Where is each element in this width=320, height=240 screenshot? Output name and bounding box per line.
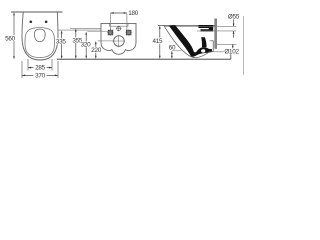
page rule at far right [243, 16, 245, 75]
dim 415 [159, 27, 161, 57]
dim 320 [85, 34, 87, 57]
dim 370 extension lines [21, 61, 23, 78]
dim 180 [110, 12, 127, 14]
ext line for 355 [70, 27, 101, 29]
arm from flush bar to wave (black) [201, 37, 206, 47]
fixing hole left [108, 30, 113, 35]
bolt hole right [45, 20, 48, 23]
floor line [57, 58, 231, 60]
dim 370 [22, 74, 34, 76]
svg-text:335: 335 [56, 38, 67, 45]
svg-text:60: 60 [169, 45, 176, 52]
dim 285 [28, 67, 34, 69]
dim 60 ext line [172, 50, 182, 52]
wall stub lower right [230, 54, 232, 59]
outlet bore (white) [201, 49, 205, 52]
svg-text:180: 180 [128, 10, 139, 17]
dim 560 line [13, 14, 15, 58]
wall double line [214, 19, 216, 49]
inner bowl rim [25, 28, 55, 58]
svg-text:220: 220 [91, 47, 102, 54]
svg-text:370: 370 [35, 73, 46, 80]
dim 285 extension lines [27, 59, 29, 71]
ext line for 220 [98, 40, 114, 42]
svg-text:560: 560 [5, 36, 16, 43]
dim 220 [95, 43, 97, 57]
drain opening [34, 29, 45, 41]
dim O55 ext lines [197, 25, 236, 27]
inlet pipe cross-section (black) [199, 25, 214, 32]
wall line [11, 11, 63, 13]
back body outline [101, 23, 136, 54]
WC body outline (plan) [22, 12, 58, 60]
seat top double line [158, 24, 215, 26]
dim 355 [75, 31, 77, 57]
svg-text:415: 415 [153, 38, 164, 45]
ceramic cut band with dip, wave and hook (black) [169, 25, 212, 56]
bolt hole left [29, 20, 32, 23]
fixing hole right [126, 30, 130, 35]
outer profile outline [164, 25, 209, 57]
svg-text:320: 320 [81, 41, 92, 48]
svg-text:285: 285 [35, 65, 46, 72]
dim O102 [232, 44, 234, 48]
dim 335 [61, 33, 63, 57]
ext line for 335 [58, 29, 101, 31]
center crosshair circle [117, 27, 121, 31]
outlet circle [114, 36, 125, 47]
top inner line [110, 23, 129, 26]
pipe end bracket [209, 41, 213, 52]
svg-text:Ø102: Ø102 [224, 48, 239, 55]
ext line for 320 [87, 31, 108, 33]
dim O102 ext lines [216, 43, 236, 45]
